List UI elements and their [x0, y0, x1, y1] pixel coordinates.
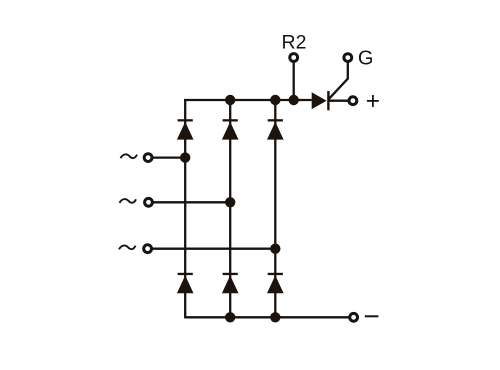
terminal minus: [350, 313, 358, 321]
node junction R2: [289, 95, 299, 105]
symbol AC source 3 tilde: [119, 245, 136, 249]
label plus sign: [367, 95, 379, 107]
wire R2 lead: [293, 62, 295, 100]
terminal plus: [349, 97, 357, 105]
wire AC input 2: [153, 201, 230, 203]
symbol AC source 1 tilde: [121, 154, 138, 158]
diode D3 upper leg3: [267, 119, 284, 139]
wire bottom rail: [185, 316, 349, 318]
wire top rail: [184, 99, 312, 101]
diode D4 lower leg1: [177, 273, 194, 293]
diode D1 upper leg1: [177, 119, 194, 139]
svg-text:G: G: [358, 48, 374, 70]
node junction leg3 bottom: [270, 312, 280, 322]
node junction AC1-leg1: [180, 152, 190, 162]
symbol AC source 2 tilde: [120, 199, 137, 203]
node junction leg2 bottom: [225, 312, 235, 322]
diode D5 lower leg2: [222, 273, 239, 293]
terminal AC2: [145, 198, 153, 206]
node junction leg3 top: [270, 95, 280, 105]
wire gate lead: [329, 62, 348, 99]
wire leg3 vertical: [274, 100, 276, 317]
terminal G: [344, 54, 352, 62]
node junction AC3-leg3: [270, 244, 280, 254]
node junction AC2-leg2: [225, 197, 235, 207]
wire AC input 1: [153, 156, 185, 158]
wire leg1 vertical: [184, 99, 186, 318]
diode D6 lower leg3: [267, 273, 284, 293]
wire AC input 3: [152, 248, 275, 250]
svg-text:R2: R2: [282, 32, 307, 54]
terminal AC3: [144, 245, 152, 253]
diode D2 upper leg2: [222, 119, 239, 139]
terminal AC1: [144, 154, 152, 162]
terminal R2: [290, 54, 298, 62]
wire leg2 vertical: [229, 100, 231, 317]
label minus sign: [365, 315, 379, 317]
wire thyristor cathode to plus terminal: [329, 100, 348, 102]
thyristor Q1: [312, 91, 330, 110]
node junction leg2 top: [225, 95, 235, 105]
